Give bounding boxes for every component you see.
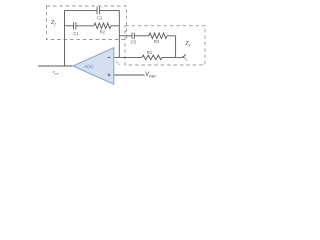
source dashed box Zs bbox=[125, 26, 205, 65]
capacitor C1 bbox=[74, 22, 76, 29]
svg-text:Zs: Zs bbox=[185, 41, 190, 48]
svg-text:R3: R3 bbox=[154, 39, 160, 44]
wire top branch right bbox=[100, 9, 120, 11]
wire mid branch right bbox=[111, 25, 119, 27]
wire Zs top from inverting rail bbox=[119, 35, 132, 37]
wire top branch left bbox=[65, 9, 98, 11]
wire R1 to vs bbox=[162, 56, 182, 58]
wire R3 to corner bbox=[167, 35, 176, 37]
wire mid branch left bbox=[65, 25, 74, 27]
capacitor C3 bbox=[132, 33, 134, 39]
resistor R3 bbox=[149, 33, 167, 39]
svg-text:Zf: Zf bbox=[51, 20, 56, 27]
svg-text:vout: vout bbox=[53, 69, 59, 76]
op-amp A(s) bbox=[73, 48, 114, 85]
resistor R1 bbox=[142, 55, 162, 60]
wire output horizontal bbox=[38, 65, 73, 67]
svg-text:R2: R2 bbox=[100, 30, 106, 35]
svg-text:VREF: VREF bbox=[145, 72, 157, 79]
capacitor C2 bbox=[97, 7, 100, 15]
wire left feedback rail bbox=[64, 10, 66, 66]
svg-text:C1: C1 bbox=[73, 31, 79, 36]
wire inverting input to R1 bbox=[114, 56, 142, 58]
wire non-inverting to VREF bbox=[114, 74, 145, 76]
svg-text:C2: C2 bbox=[97, 16, 103, 21]
resistor R2 bbox=[94, 23, 111, 29]
svg-text:A(s): A(s) bbox=[84, 64, 93, 70]
feedback dashed box Zf bbox=[47, 6, 127, 40]
wire mid branch middle bbox=[76, 25, 94, 27]
svg-text:vn: vn bbox=[116, 60, 120, 66]
svg-text:C3: C3 bbox=[131, 39, 137, 44]
source arrow vs bbox=[183, 54, 186, 57]
wire right feedback rail bbox=[118, 10, 120, 57]
op-amp plus input mark bbox=[108, 74, 111, 77]
wire C3 to R3 bbox=[134, 35, 149, 37]
svg-text:vs: vs bbox=[184, 56, 188, 63]
op-amp minus input mark bbox=[108, 56, 111, 58]
svg-text:R1: R1 bbox=[147, 50, 153, 55]
wire Zs right vertical bbox=[175, 36, 177, 58]
